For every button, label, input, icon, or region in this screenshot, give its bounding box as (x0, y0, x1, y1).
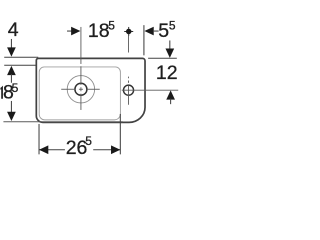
top 18.5 arrow (points right) (71, 27, 80, 36)
drain outer circle (67, 76, 94, 103)
svg-text:5: 5 (158, 20, 169, 42)
svg-text:5: 5 (169, 19, 176, 33)
basin outer outline (36, 58, 145, 122)
drain vertical centerline / top 18.5 extension line (80, 27, 82, 64)
svg-text:12: 12 (156, 62, 178, 84)
svg-text:26: 26 (66, 137, 88, 159)
svg-text:5: 5 (12, 81, 19, 95)
drain ring (75, 83, 87, 95)
5.5 arrow (points left) (144, 27, 153, 36)
4 bottom extension line (4, 64, 35, 66)
svg-text:18: 18 (88, 20, 110, 42)
4 dim line (10, 39, 12, 48)
left 18.5 lower dim line (10, 101, 12, 113)
svg-text:5: 5 (85, 134, 92, 148)
26.5 left extension line (38, 124, 40, 154)
tap hole vertical centerline (dash-dot) (128, 36, 130, 53)
26.5 dim line right segment (93, 149, 120, 151)
26.5 dim line left segment (39, 149, 65, 151)
26.5 right extension line (119, 114, 121, 154)
tap hole (123, 85, 133, 95)
5.5 extension line (143, 25, 145, 55)
12 lower arrow (points up) (166, 90, 175, 99)
bottom extension line (18.5 baseline) (3, 121, 122, 123)
12 dim upper tail (169, 40, 171, 49)
26.5 right arrow (points right) (111, 145, 120, 154)
dimension origin dot (126, 29, 132, 35)
svg-text:5: 5 (108, 18, 115, 32)
svg-text:4: 4 (8, 19, 19, 41)
12 bottom extension line / tap crosshair (122, 89, 179, 91)
drain horizontal centerline (61, 88, 75, 90)
left 18.5 text: clipped "1" drawn as stem, then "8" (0, 86, 3, 99)
left 18.5 upper arrow (points up) (7, 66, 16, 75)
basin inner rim outline (39, 67, 120, 120)
left 18.5 lower arrow (points down) (7, 112, 16, 121)
4 top extension line (4, 56, 38, 58)
12 upper arrow (points down) (165, 49, 174, 58)
26.5 left arrow (points left) (39, 145, 48, 154)
4 arrow (points down) (7, 47, 16, 56)
12 top extension line (148, 57, 177, 59)
top 18.5 dim tail (67, 30, 72, 32)
